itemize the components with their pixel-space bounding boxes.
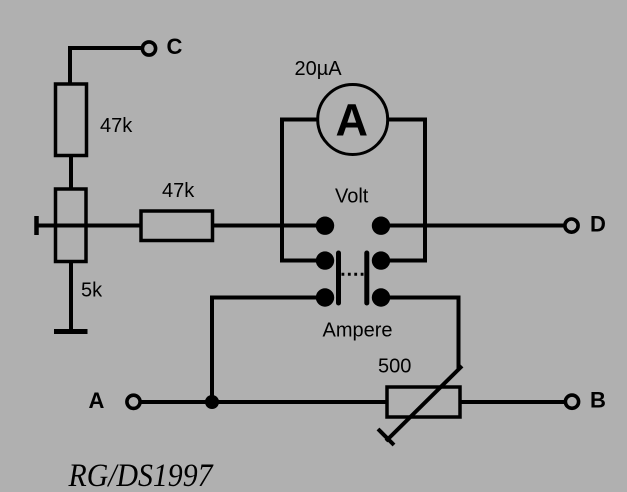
svg-text:C: C <box>167 34 183 59</box>
svg-text:500: 500 <box>378 356 411 378</box>
svg-text:47k: 47k <box>100 115 133 137</box>
svg-text:20µA: 20µA <box>295 58 343 80</box>
svg-text:Ampere: Ampere <box>323 320 393 342</box>
svg-text:A: A <box>89 388 105 413</box>
svg-text:Volt: Volt <box>335 186 369 208</box>
svg-text:D: D <box>590 212 606 237</box>
svg-text:5k: 5k <box>81 280 103 302</box>
svg-text:A: A <box>336 95 369 146</box>
svg-text:B: B <box>590 388 606 413</box>
svg-text:47k: 47k <box>162 180 195 202</box>
svg-text:RG/DS1997: RG/DS1997 <box>68 458 214 492</box>
